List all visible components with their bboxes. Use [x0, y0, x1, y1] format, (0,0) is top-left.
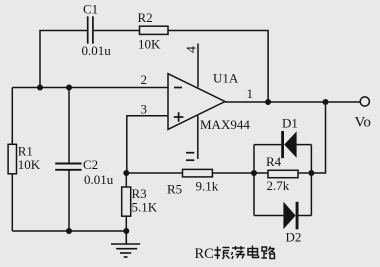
wire inverting-input rail y=87	[12, 87, 168, 89]
resistor R3	[122, 187, 131, 216]
caption chinese char dian	[248, 246, 259, 258]
svg-text:Vo: Vo	[355, 115, 371, 131]
wire C1 to R2	[94, 30, 140, 32]
op-amp minus symbol	[174, 87, 182, 89]
resistor R1	[8, 144, 16, 174]
wire mid node to R5	[126, 172, 182, 174]
svg-text:10K: 10K	[138, 37, 161, 52]
node junction bottom rail at x=69	[66, 228, 72, 234]
node junction output at x=268	[265, 99, 271, 105]
svg-text:C2: C2	[83, 157, 98, 172]
op-amp plus symbol	[174, 112, 184, 122]
svg-text:4: 4	[185, 46, 200, 53]
node junction mid branch at x=126	[123, 170, 129, 176]
svg-text:0.01u: 0.01u	[82, 43, 112, 58]
node junction on inverting rail at x=69	[66, 85, 72, 91]
resistor R5	[183, 169, 213, 177]
svg-text:2: 2	[141, 72, 148, 87]
svg-text:MAX944: MAX944	[200, 117, 250, 132]
caption chinese char dang	[232, 246, 245, 259]
resistor R2	[140, 26, 169, 34]
wire output from op-amp to terminal	[225, 101, 360, 103]
wire top-left from node A up and right to C1	[40, 31, 87, 88]
svg-text:U1A: U1A	[213, 71, 239, 86]
svg-text:R2: R2	[138, 10, 153, 25]
output terminal circle	[360, 97, 369, 106]
svg-text:D1: D1	[282, 116, 298, 131]
wire left rail upper segment	[11, 88, 13, 145]
pin number 11 (rotated)	[186, 153, 194, 161]
wire R5 to diode network left node	[212, 172, 254, 174]
wire R3 branch upper	[125, 173, 127, 187]
wire R2 right to corner down to output node	[168, 31, 268, 103]
node junction left diode network	[251, 170, 257, 176]
svg-text:10K: 10K	[18, 157, 41, 172]
node junction on inverting rail at x=40	[37, 85, 43, 91]
diode network left vertical	[253, 145, 255, 216]
wire C2 branch upper	[68, 88, 70, 164]
resistor R4	[268, 170, 298, 177]
svg-text:5.1K: 5.1K	[132, 200, 158, 215]
svg-text:RC: RC	[195, 246, 214, 262]
svg-text:3: 3	[141, 102, 148, 117]
capacitor C2	[55, 164, 81, 170]
node junction bottom rail at x=126	[123, 228, 129, 234]
wire R3 branch lower	[125, 216, 127, 231]
diode network right vertical	[310, 145, 312, 216]
wire D1 branch left	[254, 144, 281, 146]
node junction right diode network	[308, 170, 314, 176]
wire C2 branch lower	[68, 171, 70, 232]
svg-text:C1: C1	[83, 2, 98, 17]
power pin 11 stub	[197, 116, 199, 159]
wire R4 branch left	[254, 172, 268, 174]
wire non-inverting input with corner down to mid node	[127, 116, 168, 173]
ground	[111, 231, 140, 257]
svg-text:9.1k: 9.1k	[196, 179, 219, 194]
svg-text:2.7k: 2.7k	[267, 178, 290, 193]
wire output node down to R4 branch	[311, 102, 325, 173]
caption chinese char zhen	[215, 247, 230, 260]
wire R4 branch right	[298, 172, 311, 174]
power pin 4 stub	[197, 44, 199, 88]
svg-text:R5: R5	[167, 182, 182, 197]
svg-text:R4: R4	[266, 154, 282, 169]
node junction output at x=325.5	[323, 99, 329, 105]
op-amp U1A	[168, 74, 225, 130]
svg-text:1: 1	[247, 86, 254, 101]
caption chinese char lu	[262, 247, 275, 259]
diode D2	[283, 202, 298, 230]
capacitor C1	[88, 16, 93, 43]
wire bottom rail	[12, 230, 126, 232]
wire D2 branch right	[299, 215, 312, 217]
wire D2 branch left	[254, 215, 283, 217]
svg-text:0.01u: 0.01u	[84, 172, 114, 187]
wire left rail lower segment	[11, 174, 13, 231]
svg-text:D2: D2	[286, 230, 302, 245]
diode D1	[281, 131, 296, 158]
wire D1 branch right	[297, 144, 312, 146]
